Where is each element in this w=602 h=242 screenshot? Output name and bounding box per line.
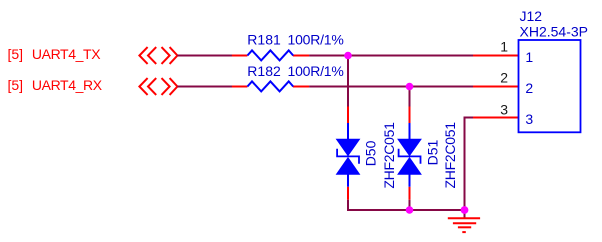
ground <box>448 218 480 232</box>
svg-text:J12: J12 <box>520 8 543 24</box>
svg-text:3: 3 <box>500 101 508 117</box>
svg-text:ZHF2C051: ZHF2C051 <box>381 122 397 189</box>
diode D51 labels <box>425 122 458 189</box>
resistor R182 labels <box>247 63 343 79</box>
resistor R182 <box>232 81 309 91</box>
wire pin3 vertical <box>464 117 466 218</box>
svg-text:XH2.54-3P: XH2.54-3P <box>520 24 588 40</box>
junction ground <box>461 206 469 214</box>
diode D50 labels <box>363 122 397 189</box>
wire pin3 horizontal <box>465 117 474 119</box>
svg-text:100R/1%: 100R/1% <box>288 32 344 48</box>
svg-text:100R/1%: 100R/1% <box>288 63 344 79</box>
svg-text:D51: D51 <box>425 140 441 166</box>
svg-text:UART4_RX: UART4_RX <box>32 77 103 93</box>
svg-text:R182: R182 <box>247 63 281 79</box>
junction bottom D51 <box>406 206 414 214</box>
wire vertical D51 bottom <box>409 200 411 210</box>
svg-text:R181: R181 <box>247 32 281 48</box>
connector J12 refdes labels <box>520 8 588 39</box>
svg-text:[5]: [5] <box>8 46 24 62</box>
svg-text:3: 3 <box>525 111 533 127</box>
wire row1 right <box>309 55 473 57</box>
connector J12 pin wires <box>473 56 519 118</box>
connector J12 body <box>519 40 581 132</box>
svg-text:[5]: [5] <box>8 77 24 93</box>
junction row2 <box>406 83 414 91</box>
svg-text:1: 1 <box>500 38 508 54</box>
wire row2 left <box>177 86 233 88</box>
net label UART4_RX <box>8 77 103 93</box>
svg-text:2: 2 <box>500 70 508 86</box>
wire row2 right <box>309 86 473 88</box>
svg-text:UART4_TX: UART4_TX <box>32 46 101 62</box>
svg-text:1: 1 <box>525 49 533 65</box>
junction row1 <box>344 52 352 60</box>
resistor R181 <box>232 50 309 60</box>
svg-text:2: 2 <box>525 80 533 96</box>
svg-text:ZHF2C051: ZHF2C051 <box>442 122 458 189</box>
svg-text:D50: D50 <box>363 140 379 166</box>
wire vertical D50 bottom <box>347 200 349 211</box>
wire vertical D50 top <box>347 56 349 107</box>
diode D51 <box>397 107 422 200</box>
off-page connector UART4_RX <box>139 78 177 95</box>
resistor R181 labels <box>247 32 343 48</box>
off-page connector UART4_TX <box>139 47 177 64</box>
wire bottom horizontal <box>347 209 465 211</box>
diode D50 <box>336 107 361 200</box>
net label UART4_TX <box>8 46 102 62</box>
wire row1 left <box>177 55 233 57</box>
wire vertical D51 top <box>409 87 411 107</box>
